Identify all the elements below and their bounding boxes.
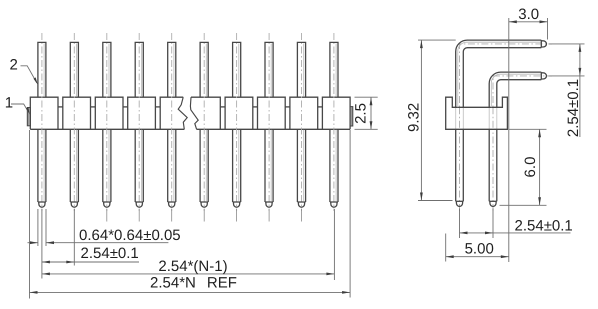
housing web 1-2 [58,106,63,108]
housing web 3-4 [123,106,128,108]
dimension 3.0 (tip length) [509,6,548,262]
svg-text:2.54±0.1: 2.54±0.1 [565,79,582,137]
housing square 4 [128,97,156,129]
housing right end tab [350,107,353,126]
housing web 9-10 [318,106,323,108]
pin P3 (front view) [103,33,111,222]
pin P1 (front view) [38,33,46,211]
pin P6 (front view) [200,33,208,222]
dimension 2.54*(N-1) [42,209,335,280]
housing square 10 [322,97,350,129]
svg-text:2.54±0.1: 2.54±0.1 [81,245,139,262]
svg-text:5.00: 5.00 [465,241,494,258]
housing left end tab [27,108,30,126]
housing square 2 [63,97,91,129]
svg-text:REF: REF [207,275,237,292]
dimension 2.5 (housing height) [352,97,377,129]
housing square 3 [95,97,123,129]
dimension 9.32 (overall height) [406,40,456,200]
housing square 5 (break on right) [160,97,188,129]
dimension 0.64*0.64±0.05 (pin cross-section) [28,209,181,246]
svg-text:9.32: 9.32 [406,103,423,132]
housing square 6 (break on left) [191,97,220,129]
dimension 5.00 (housing width, side view) [446,234,509,262]
dimension 2.54±0.1 (pin spacing, side view) [460,209,573,239]
housing square 9 [290,97,318,129]
pin B (side view, bent) [489,72,546,206]
break line left [178,97,187,129]
housing square 7 [225,97,253,129]
housing (side view) [446,97,508,129]
label 1 leader (housing) [5,95,30,115]
dimension 6.0 (pin length below housing) [500,129,547,205]
pin P4 (front view) [135,33,143,222]
pin B centerline (side view) [493,76,552,211]
svg-text:2.54*(N-1): 2.54*(N-1) [158,258,227,275]
pin A centerline (side view) [460,44,553,211]
dimension 2.54±0.1 (row spacing) [549,44,585,137]
pin A (side view, bent) [456,40,547,206]
svg-text:0.64*0.64±0.05: 0.64*0.64±0.05 [79,227,181,244]
housing square 8 [258,97,286,129]
svg-text:3.0: 3.0 [518,6,539,23]
housing web 4-5 [155,106,160,108]
housing web 8-9 [285,106,290,108]
pin P7 (front view) [233,33,241,222]
pin P2 (front view) [70,33,78,211]
housing square 1 [30,97,58,129]
pin P9 (front view) [297,33,305,222]
svg-text:6.0: 6.0 [522,157,539,178]
housing bottom edge (right of break) [197,128,351,130]
svg-text:2: 2 [10,57,18,74]
svg-text:2.54±0.1: 2.54±0.1 [515,217,573,234]
svg-text:1: 1 [5,95,13,112]
svg-text:2.5: 2.5 [352,103,369,124]
dimension 2.54*N REF [30,130,351,299]
label 2 leader (pin) [10,57,38,85]
housing web 2-3 [91,106,96,108]
pin P8 (front view) [265,33,273,222]
pin P10 (front view) [330,33,338,211]
housing bottom edge (left of break) [30,128,184,130]
svg-text:2.54*N: 2.54*N [150,275,196,292]
housing web 7-8 [253,106,258,108]
housing web 6-7 [220,106,225,108]
break line right [190,97,198,129]
dimension 2.54±0.1 (pitch) [42,209,139,279]
pin P5 (front view) [168,33,176,222]
